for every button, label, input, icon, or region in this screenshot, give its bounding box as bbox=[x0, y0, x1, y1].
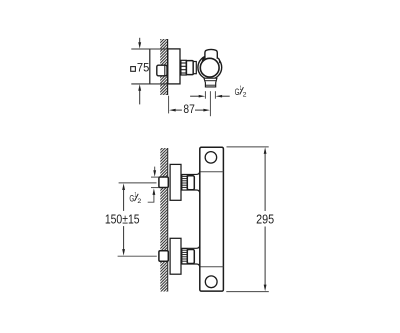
150 dimension line upper segment with arrow bbox=[122, 183, 125, 190]
wall section (front view) bbox=[160, 148, 167, 292]
extension line bottom of 75 dimension bbox=[131, 83, 167, 85]
top inlet boss (front view) bbox=[182, 171, 200, 193]
bottom ribbed connector (front view) bbox=[182, 249, 187, 264]
87 extension line bbox=[168, 96, 170, 114]
G1/2 arrow left (top view) bbox=[190, 95, 199, 97]
nut reference tick bottom bbox=[151, 187, 159, 189]
295 extension line bottom bbox=[226, 291, 268, 293]
supply elbow nut behind wall (top view) bbox=[157, 65, 167, 76]
flange separation line bottom bbox=[200, 266, 223, 268]
top screw hole bbox=[205, 152, 217, 164]
extension line top of 75 dimension bbox=[131, 48, 167, 50]
centerline below outlet bbox=[209, 91, 211, 116]
top supply nut through wall (front view) bbox=[159, 177, 168, 188]
svg-text:295: 295 bbox=[256, 213, 274, 227]
top union nut (front view) bbox=[187, 176, 194, 190]
valve body (top view) bbox=[198, 56, 222, 80]
G1/2 extension line right (top view) bbox=[214, 91, 216, 99]
svg-text:87: 87 bbox=[183, 102, 194, 116]
square symbol of label 75 bbox=[131, 67, 136, 72]
87 dimension arrow right bbox=[195, 109, 204, 111]
150 dimension extension line top bbox=[119, 182, 157, 184]
union nut (top view) bbox=[186, 61, 193, 75]
G1/2 upper arrow (front view) bbox=[154, 167, 156, 172]
nut reference tick top bbox=[151, 176, 159, 178]
295 extension line top bbox=[227, 146, 269, 148]
flange separation line top bbox=[200, 171, 223, 173]
G1/2 arrow right (top view) bbox=[222, 95, 230, 97]
bottom escutcheon plate (front view) bbox=[170, 238, 181, 274]
svg-text:75: 75 bbox=[137, 61, 150, 75]
bottom union nut (front view) bbox=[187, 250, 194, 264]
outlet spout (top view) bbox=[204, 78, 217, 87]
spacer ring (top view) bbox=[193, 62, 196, 74]
bottom screw hole bbox=[205, 276, 217, 288]
wall plate (top view) bbox=[168, 49, 180, 84]
ribbed connector (top view) bbox=[181, 60, 186, 75]
handle knob and shoulder (top view) bbox=[202, 49, 220, 63]
top escutcheon plate (front view) bbox=[170, 164, 181, 200]
G1/2 extension line left (top view) bbox=[204, 91, 206, 99]
wall section (top view) bbox=[160, 39, 167, 95]
150 dimension extension line bottom bbox=[118, 255, 157, 257]
svg-text:2: 2 bbox=[243, 92, 247, 99]
concealed valve box left edge (top view) bbox=[149, 49, 151, 84]
svg-text:150±15: 150±15 bbox=[105, 212, 140, 226]
dimension arrow below (75) bbox=[139, 91, 141, 105]
150 dimension line lower segment with arrow bbox=[123, 226, 125, 250]
top ribbed connector (front view) bbox=[182, 175, 187, 190]
bottom inlet boss (front view) bbox=[182, 245, 200, 268]
bottom supply nut through wall (front view) bbox=[159, 251, 168, 261]
mixer body (front view) bbox=[200, 147, 224, 291]
dimension arrow above (75) bbox=[139, 38, 141, 43]
295 dimension line upper segment with arrow bbox=[264, 147, 267, 154]
cartridge face circle (top view) bbox=[200, 58, 219, 77]
svg-text:2: 2 bbox=[137, 198, 141, 205]
87 dimension arrow left bbox=[169, 109, 176, 112]
295 dimension line lower segment with arrow bbox=[264, 227, 266, 286]
G1/2 leader with arrow (front view) bbox=[148, 195, 154, 203]
